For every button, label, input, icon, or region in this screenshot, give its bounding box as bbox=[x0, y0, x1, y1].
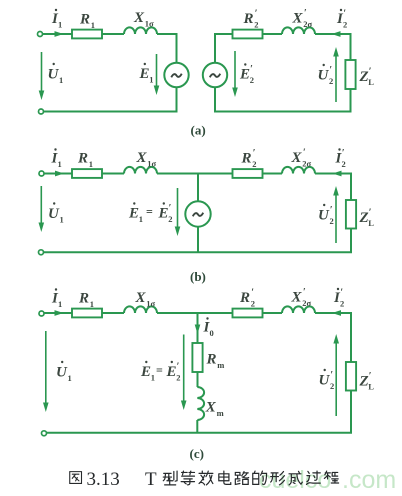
svg-text:E: E bbox=[128, 206, 139, 222]
svg-text:R: R bbox=[206, 352, 217, 368]
svg-text:1: 1 bbox=[91, 20, 95, 30]
svg-text:(a): (a) bbox=[191, 123, 206, 138]
svg-text:′: ′ bbox=[250, 64, 253, 75]
svg-text:L: L bbox=[368, 381, 374, 391]
svg-text:R: R bbox=[78, 291, 89, 307]
svg-text:U: U bbox=[319, 373, 331, 389]
svg-text:1σ: 1σ bbox=[145, 19, 154, 29]
svg-text:2: 2 bbox=[330, 381, 334, 391]
svg-text:′: ′ bbox=[330, 205, 333, 216]
svg-text:′: ′ bbox=[330, 370, 333, 381]
svg-text:1: 1 bbox=[58, 159, 62, 169]
svg-text:U: U bbox=[318, 208, 330, 224]
svg-text:′: ′ bbox=[340, 288, 343, 299]
svg-text:′: ′ bbox=[251, 288, 254, 299]
svg-text:2σ: 2σ bbox=[303, 19, 312, 29]
svg-text:2: 2 bbox=[254, 20, 258, 30]
svg-text:E: E bbox=[239, 67, 250, 83]
svg-text:U: U bbox=[56, 365, 68, 381]
svg-text:′: ′ bbox=[343, 9, 346, 20]
svg-text:(c): (c) bbox=[190, 446, 204, 461]
svg-text:X: X bbox=[291, 150, 303, 166]
svg-text:Z: Z bbox=[359, 210, 369, 226]
svg-text:X: X bbox=[291, 290, 303, 306]
svg-text:E: E bbox=[166, 364, 177, 380]
svg-text:.com: .com bbox=[342, 466, 396, 494]
svg-text:R: R bbox=[77, 151, 88, 167]
svg-text:1: 1 bbox=[58, 299, 62, 309]
svg-text:2: 2 bbox=[252, 159, 256, 169]
svg-text:′: ′ bbox=[255, 9, 258, 20]
svg-text:E: E bbox=[140, 364, 151, 380]
svg-text:m: m bbox=[217, 408, 224, 418]
svg-text:R: R bbox=[239, 290, 250, 306]
svg-text:1: 1 bbox=[89, 159, 93, 169]
svg-text:X: X bbox=[136, 150, 148, 166]
svg-text:0: 0 bbox=[210, 328, 214, 338]
svg-text:X: X bbox=[133, 10, 145, 26]
svg-text:U: U bbox=[48, 67, 60, 83]
svg-text:U: U bbox=[318, 68, 330, 84]
svg-text:R: R bbox=[79, 11, 90, 27]
svg-text:2: 2 bbox=[343, 20, 347, 30]
svg-text:2: 2 bbox=[176, 373, 180, 383]
svg-text:E: E bbox=[158, 206, 169, 222]
svg-text:2: 2 bbox=[250, 75, 254, 85]
svg-text:′: ′ bbox=[369, 371, 372, 382]
svg-text:1: 1 bbox=[68, 373, 72, 383]
svg-text:(b): (b) bbox=[190, 269, 206, 284]
svg-text:′: ′ bbox=[304, 8, 307, 19]
svg-text:1: 1 bbox=[151, 373, 155, 383]
svg-text:=: = bbox=[146, 205, 153, 219]
svg-text:R: R bbox=[241, 151, 252, 167]
svg-text:T: T bbox=[145, 469, 157, 490]
svg-text:2σ: 2σ bbox=[302, 298, 311, 308]
svg-text:2: 2 bbox=[329, 76, 333, 86]
svg-text:′: ′ bbox=[369, 67, 372, 78]
svg-text:′: ′ bbox=[177, 362, 180, 373]
svg-text:X: X bbox=[292, 11, 304, 27]
svg-text:2: 2 bbox=[340, 299, 344, 309]
svg-text:1: 1 bbox=[60, 215, 64, 225]
svg-text:L: L bbox=[368, 77, 374, 87]
svg-text:′: ′ bbox=[342, 148, 345, 159]
svg-text:1: 1 bbox=[139, 214, 143, 224]
svg-text:′: ′ bbox=[253, 148, 256, 159]
svg-text:1σ: 1σ bbox=[147, 159, 156, 169]
svg-text:′: ′ bbox=[369, 208, 372, 219]
svg-text:2: 2 bbox=[251, 299, 255, 309]
svg-text:m: m bbox=[217, 360, 224, 370]
svg-text:′: ′ bbox=[303, 148, 306, 159]
svg-text:′: ′ bbox=[303, 287, 306, 298]
svg-text:1σ: 1σ bbox=[146, 299, 155, 309]
svg-text:U: U bbox=[48, 206, 60, 222]
svg-text:1: 1 bbox=[149, 75, 153, 85]
svg-text:′: ′ bbox=[329, 65, 332, 76]
svg-text:=: = bbox=[156, 363, 163, 377]
svg-text:2σ: 2σ bbox=[302, 159, 311, 169]
svg-text:X: X bbox=[135, 290, 147, 306]
svg-text:1: 1 bbox=[59, 75, 63, 85]
svg-text:X: X bbox=[205, 400, 217, 416]
svg-text:1: 1 bbox=[90, 299, 94, 309]
svg-text:E: E bbox=[139, 66, 150, 82]
svg-text:Z: Z bbox=[359, 374, 369, 390]
svg-text:′: ′ bbox=[169, 203, 172, 214]
svg-text:2: 2 bbox=[168, 214, 172, 224]
svg-text:1: 1 bbox=[58, 20, 62, 30]
svg-text:2: 2 bbox=[330, 216, 334, 226]
svg-text:3.13: 3.13 bbox=[87, 469, 120, 490]
svg-text:2: 2 bbox=[342, 159, 346, 169]
svg-text:L: L bbox=[368, 218, 374, 228]
svg-text:R: R bbox=[243, 11, 254, 27]
svg-text:Z: Z bbox=[359, 69, 369, 85]
